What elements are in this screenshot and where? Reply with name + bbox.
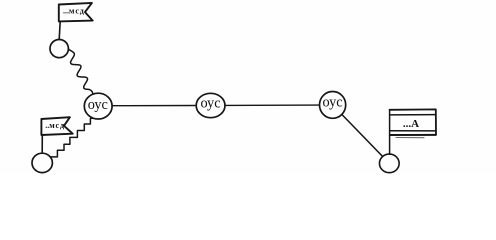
svg-text:...А: ...А (403, 118, 419, 130)
svg-text:...мсд: ...мсд (63, 6, 85, 15)
svg-text:оус: оус (323, 94, 343, 110)
svg-text:оус: оус (200, 95, 220, 111)
svg-text:..мсд: ..мсд (45, 121, 65, 130)
svg-text:оус: оус (88, 97, 108, 113)
